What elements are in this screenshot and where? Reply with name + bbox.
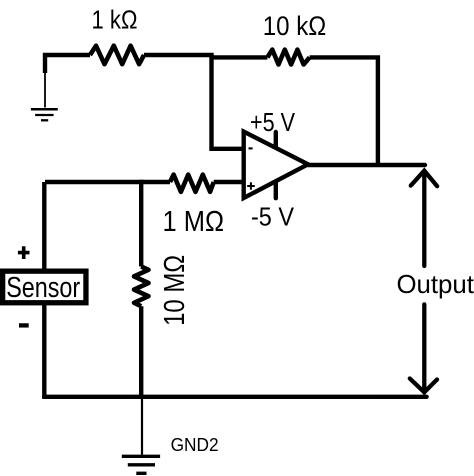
bottom rail wire bbox=[44, 395, 426, 399]
resistor R3 1 MOhm bbox=[170, 175, 214, 192]
ground (top-left) bbox=[31, 71, 58, 120]
wire sensor bottom to bottom rail bbox=[42, 303, 46, 399]
svg-text:Sensor: Sensor bbox=[6, 272, 80, 304]
svg-text:1 MΩ: 1 MΩ bbox=[163, 206, 225, 238]
svg-text:GND2: GND2 bbox=[171, 435, 219, 455]
wire non-inverting input rail bbox=[45, 180, 170, 184]
wire 10M branch top bbox=[139, 180, 143, 267]
op-amp U1 inverting input pin marker - bbox=[249, 147, 253, 149]
wire top-left rail from ground to node A bbox=[45, 55, 90, 73]
op-amp U1 non-inverting input pin marker + bbox=[247, 182, 255, 190]
sensor polarity + bbox=[18, 246, 30, 259]
wire 10M branch bottom bbox=[139, 306, 143, 399]
svg-text:-5 V: -5 V bbox=[251, 203, 294, 231]
sensor SENSOR box bbox=[3, 271, 86, 303]
svg-text:+5 V: +5 V bbox=[250, 109, 295, 137]
node A junction vertical wire down to inverting input bbox=[212, 55, 245, 149]
wire R2 to feedback corner and down to output net bbox=[310, 57, 378, 165]
wire R1 right lead to node A bbox=[144, 53, 214, 57]
resistor R1 1 kOhm bbox=[90, 46, 144, 64]
output arrow (double-headed) bbox=[410, 171, 437, 393]
wire left branch down to sensor bbox=[42, 182, 46, 271]
svg-text:Output: Output bbox=[396, 269, 474, 299]
svg-text:10 MΩ: 10 MΩ bbox=[159, 255, 191, 326]
wire node A to R2 bbox=[212, 55, 268, 59]
svg-text:10 kΩ: 10 kΩ bbox=[263, 11, 327, 41]
wire op-amp output to output node bbox=[308, 163, 425, 167]
op-amp U1 bbox=[244, 132, 308, 199]
resistor R2 10 kOhm bbox=[267, 50, 309, 65]
svg-text:1 kΩ: 1 kΩ bbox=[92, 7, 138, 35]
resistor R4 10 MOhm vertical bbox=[134, 267, 149, 307]
sensor polarity - bbox=[19, 323, 29, 327]
wire R3 to non-inverting input bbox=[214, 180, 244, 184]
ground GND2 bbox=[122, 399, 160, 474]
